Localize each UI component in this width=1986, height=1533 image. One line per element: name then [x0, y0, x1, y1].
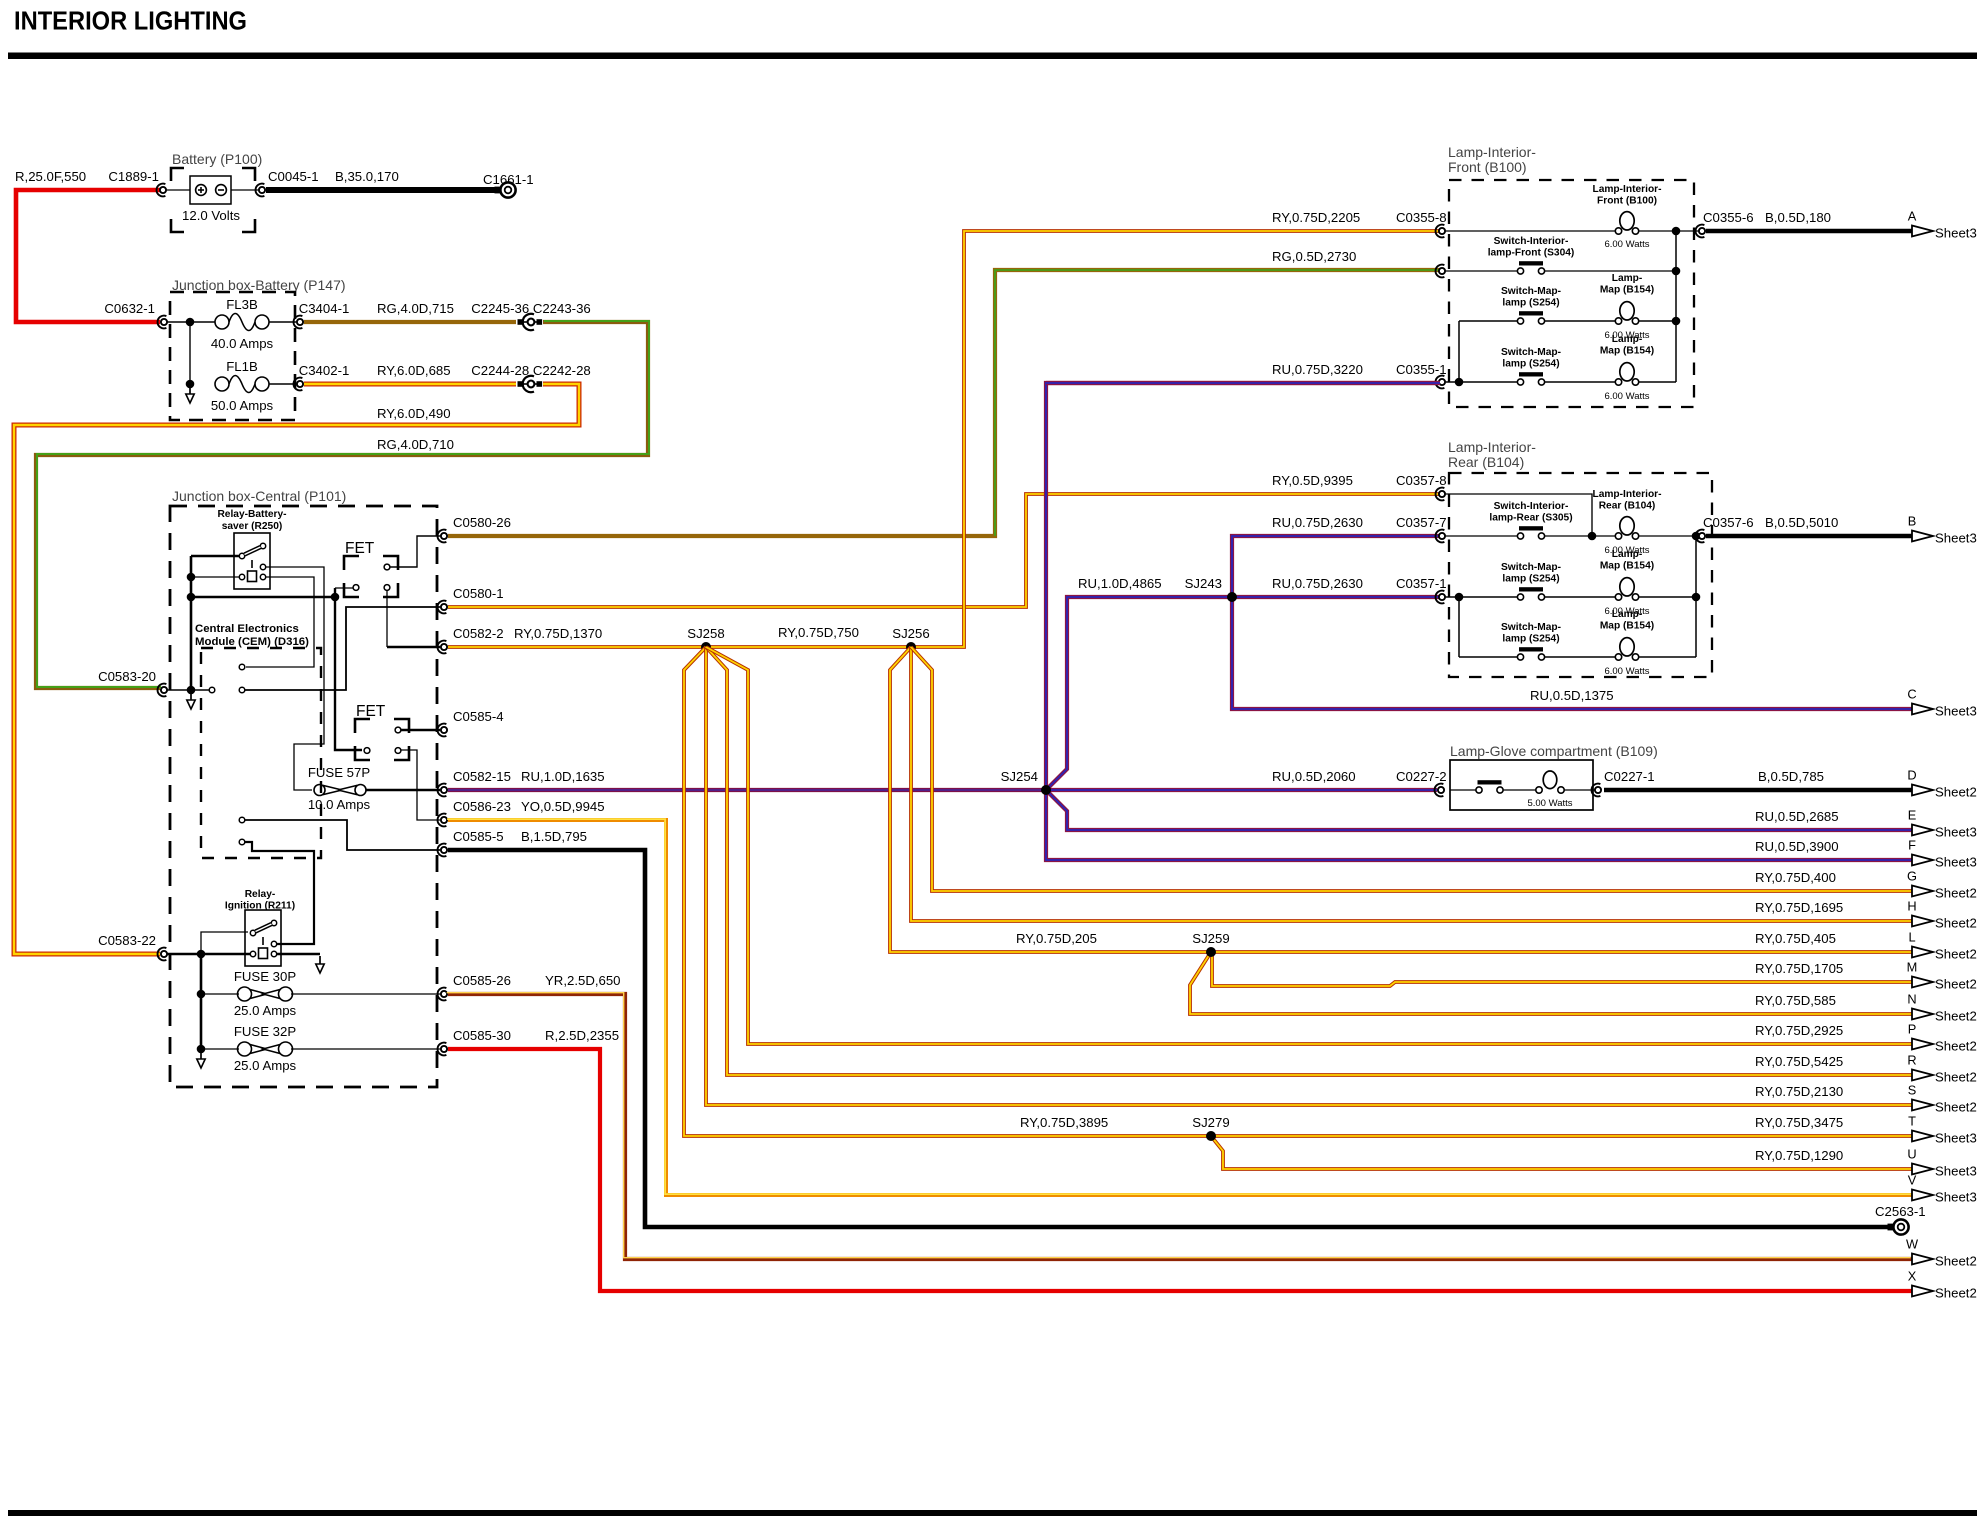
wire B104 row2c — [1639, 535, 1698, 537]
label 6.00 Watts B104 r2 — [1604, 545, 1649, 556]
wire CEM to C0580-1 — [245, 607, 440, 690]
svg-text:A: A — [1908, 209, 1917, 224]
label 12.0 Volts — [182, 208, 240, 223]
label S254b line2 — [1502, 359, 1559, 370]
junction C0583-20 — [187, 686, 196, 695]
label CEM line2 — [195, 636, 309, 648]
splice SJ258 — [701, 642, 711, 652]
svg-text:C: C — [1907, 687, 1916, 702]
splice SJ243 — [1227, 592, 1237, 602]
label Relay-Battery-saver line2 — [222, 521, 283, 532]
label YO,0.5D,9945 — [521, 799, 605, 814]
svg-text:Sheet2: Sheet2 — [1935, 947, 1977, 962]
sheet arrow V Sheet3 — [1908, 1173, 1977, 1205]
label B154a line1 — [1612, 273, 1643, 284]
lamp B154 rear b — [1615, 638, 1638, 661]
label C0586-23 — [453, 799, 511, 814]
label B,1.5D,795 — [521, 829, 587, 844]
wire B109 mid — [1503, 789, 1536, 791]
sheet arrow R Sheet2 — [1907, 1053, 1976, 1085]
label C0582-15 — [453, 769, 511, 784]
label R,25.0F,550 — [15, 169, 86, 184]
label SJ279 — [1192, 1115, 1229, 1130]
svg-text:V: V — [1908, 1173, 1917, 1188]
connector C0355-1 — [1436, 376, 1446, 389]
junction bus a — [187, 573, 196, 582]
svg-text:C0585-30: C0585-30 — [453, 1028, 511, 1043]
wire RY,0.75D,5425 run — [706, 647, 1912, 1075]
svg-text:Switch-Map-: Switch-Map- — [1501, 286, 1561, 297]
label Relay-Ignition line2 — [225, 901, 295, 912]
label B154b line2 — [1600, 346, 1654, 357]
label B154c line2 — [1600, 561, 1654, 572]
wire B104 row4b — [1544, 656, 1615, 658]
label S305 line1 — [1494, 501, 1569, 512]
svg-text:C0583-22: C0583-22 — [98, 933, 156, 948]
switch S254 rear b — [1517, 647, 1544, 660]
svg-text:Front (B100): Front (B100) — [1448, 159, 1527, 175]
svg-text:RY,0.75D,1290: RY,0.75D,1290 — [1755, 1148, 1843, 1163]
svg-text:RY,6.0D,490: RY,6.0D,490 — [377, 406, 451, 421]
label RU,0.5D,1375 — [1530, 688, 1614, 703]
label C0357-8 — [1396, 473, 1447, 488]
svg-text:Switch-Map-: Switch-Map- — [1501, 347, 1561, 358]
svg-text:lamp-Rear (S305): lamp-Rear (S305) — [1489, 513, 1572, 524]
svg-text:FUSE 57P: FUSE 57P — [308, 765, 371, 780]
label FL3B — [226, 297, 258, 312]
svg-text:lamp (S254): lamp (S254) — [1502, 634, 1559, 645]
label RY,0.75D,1370 — [514, 626, 602, 641]
wire B104 row2 — [1446, 535, 1517, 537]
label C3402-1 — [299, 363, 350, 378]
wire FL1B out — [269, 383, 296, 385]
wire RG tracer — [995, 270, 1440, 536]
pin CEM d — [239, 839, 245, 845]
lamp B104 — [1615, 517, 1638, 540]
wire RY,0.5D,9395 run — [448, 494, 1440, 607]
inline connector C2244-28 C2242-28 — [518, 376, 543, 392]
svg-text:Switch-Interior-: Switch-Interior- — [1494, 236, 1569, 247]
splice SJ259 — [1206, 947, 1216, 957]
svg-text:L: L — [1908, 930, 1915, 945]
label C0355-6 — [1703, 210, 1754, 225]
label C0580-26 — [453, 515, 511, 530]
svg-text:Sheet2: Sheet2 — [1935, 977, 1977, 992]
svg-text:C0583-20: C0583-20 — [98, 669, 156, 684]
footer rule — [8, 1510, 1977, 1516]
wire RU,0.5D,2685 run — [1046, 790, 1912, 830]
sheet arrow A Sheet3 — [1908, 209, 1977, 241]
svg-text:P: P — [1908, 1022, 1917, 1037]
label YR,2.5D,650 — [545, 973, 621, 988]
svg-text:Central Electronics: Central Electronics — [195, 623, 299, 635]
svg-text:10.0 Amps: 10.0 Amps — [308, 797, 371, 812]
wire FET1 gate stub — [335, 587, 353, 589]
svg-text:RY,6.0D,685: RY,6.0D,685 — [377, 363, 451, 378]
svg-text:C0357-7: C0357-7 — [1396, 515, 1447, 530]
svg-text:Sheet2: Sheet2 — [1935, 1286, 1977, 1301]
wire B100 row4b — [1544, 381, 1615, 383]
switch B109 — [1476, 780, 1503, 793]
label RY,0.75D,205 — [1016, 931, 1097, 946]
wire RU,0.75D,2630 to C0357-7 — [1232, 536, 1440, 597]
label B154a line2 — [1600, 285, 1654, 296]
CEM D316 box — [201, 648, 321, 858]
label RU,1.0D,1635 — [521, 769, 605, 784]
label 40.0 Amps — [211, 336, 274, 351]
wire FET1 source drop — [386, 590, 388, 647]
label S304 line1 — [1494, 236, 1569, 247]
label RY,0.75D,2925 — [1755, 1023, 1843, 1038]
wire B100 row2 — [1446, 270, 1517, 272]
svg-text:C0582-2: C0582-2 — [453, 626, 504, 641]
label FUSE 57P — [308, 765, 371, 780]
label B104 lamp line2 — [1599, 501, 1656, 512]
label SJ254 — [1001, 769, 1038, 784]
svg-text:F: F — [1908, 838, 1916, 853]
svg-text:lamp (S254): lamp (S254) — [1502, 574, 1559, 585]
svg-text:Sheet3: Sheet3 — [1935, 825, 1977, 840]
svg-text:B,35.0,170: B,35.0,170 — [335, 169, 399, 184]
svg-text:Map (B154): Map (B154) — [1600, 621, 1654, 632]
label 25.0 Amps a — [234, 1003, 297, 1018]
connector C0585-30 — [438, 1043, 448, 1056]
label SJ256 — [892, 626, 929, 641]
wire B104 row3 — [1446, 596, 1517, 598]
svg-text:Map (B154): Map (B154) — [1600, 285, 1654, 296]
page title — [14, 8, 247, 36]
svg-text:T: T — [1908, 1114, 1916, 1129]
connector C0632-1 — [158, 316, 168, 329]
pin CEM top — [239, 664, 245, 670]
label C0357-7 — [1396, 515, 1447, 530]
sheet arrow X Sheet2 — [1908, 1269, 1977, 1301]
wire RU,0.5D,1375 run — [1232, 597, 1912, 709]
svg-text:C2563-1: C2563-1 — [1875, 1204, 1926, 1219]
svg-text:saver (R250): saver (R250) — [222, 521, 283, 532]
svg-text:C3402-1: C3402-1 — [299, 363, 350, 378]
svg-text:RY,0.75D,585: RY,0.75D,585 — [1755, 993, 1836, 1008]
wire YR,2.5D,650 run — [447, 993, 1912, 1259]
wire RU,0.5D,2060 run — [1049, 788, 1437, 792]
svg-text:Sheet3: Sheet3 — [1935, 1190, 1977, 1205]
wire RY,0.75D,3895 run — [684, 647, 1912, 1136]
ground CEM — [187, 692, 195, 709]
sheet arrow M Sheet2 — [1907, 960, 1977, 992]
lamp B109 — [1536, 771, 1564, 793]
svg-text:R,2.5D,2355: R,2.5D,2355 — [545, 1028, 619, 1043]
lamp B154 rear a — [1615, 578, 1638, 601]
wire B100 row3c — [1639, 320, 1676, 322]
wire RY,0.75D,1695 run — [911, 647, 1912, 921]
connector C0582-2 — [438, 641, 448, 654]
label C0582-2 — [453, 626, 504, 641]
connector C0355-7 — [1436, 265, 1446, 278]
lamp module B104 box — [1449, 473, 1712, 677]
junction box P101 — [170, 506, 437, 1087]
wire fuse32 in — [201, 1048, 239, 1050]
svg-text:N: N — [1907, 992, 1916, 1007]
label B104 title1 — [1448, 439, 1536, 455]
wire B100 row1b — [1639, 230, 1698, 232]
wire RU,1.0D,1635 run — [448, 788, 1043, 792]
svg-text:YR,2.5D,650: YR,2.5D,650 — [545, 973, 621, 988]
svg-text:6.00 Watts: 6.00 Watts — [1604, 239, 1649, 250]
label RY,0.75D,3475 — [1755, 1115, 1843, 1130]
label Relay-Battery-saver line1 — [217, 509, 286, 520]
svg-text:Switch-Interior-: Switch-Interior- — [1494, 501, 1569, 512]
svg-text:Sheet2: Sheet2 — [1935, 1039, 1977, 1054]
wire R,25.0F,550 battery feed — [16, 190, 163, 322]
wire to C0582-2 — [387, 646, 440, 649]
svg-text:RY,0.75D,750: RY,0.75D,750 — [778, 625, 859, 640]
wire fuse57 out — [366, 789, 440, 792]
wire B,0.5D,5010 run — [1706, 534, 1912, 539]
svg-text:5.00 Watts: 5.00 Watts — [1527, 798, 1572, 809]
wire RY,0.75D,205 run — [890, 647, 1912, 952]
label Relay-Ignition line1 — [245, 889, 276, 900]
switch S305 — [1517, 526, 1544, 539]
svg-text:Switch-Map-: Switch-Map- — [1501, 562, 1561, 573]
wire RY,0.75D,1370 run — [448, 231, 1440, 647]
ring terminal C1661-1 — [483, 172, 534, 198]
connector C0357-6 — [1696, 530, 1706, 543]
label S254a line2 — [1502, 298, 1559, 309]
svg-text:Lamp-Interior-: Lamp-Interior- — [1448, 144, 1536, 160]
label C0227-2 — [1396, 769, 1447, 784]
label S254c line1 — [1501, 562, 1561, 573]
label RY,0.75D,585 — [1755, 993, 1836, 1008]
label 5.00 Watts — [1527, 798, 1572, 809]
connector C0357-7 — [1436, 530, 1446, 543]
wire YO,0.5D,9945 run — [447, 819, 1912, 1195]
junction fuse32 — [197, 1045, 206, 1054]
svg-text:FUSE 30P: FUSE 30P — [234, 969, 297, 984]
svg-text:Sheet2: Sheet2 — [1935, 886, 1977, 901]
svg-text:Sheet2: Sheet2 — [1935, 1100, 1977, 1115]
label C0045-1 — [268, 169, 319, 184]
label RY,0.75D,400 — [1755, 870, 1836, 885]
pin CEM c — [239, 817, 245, 823]
svg-text:Junction box-Battery (P147): Junction box-Battery (P147) — [172, 277, 346, 293]
label C0585-5 — [453, 829, 504, 844]
svg-text:C0357-1: C0357-1 — [1396, 576, 1447, 591]
connector C0580-1 — [438, 601, 448, 614]
svg-text:Module (CEM) (D316): Module (CEM) (D316) — [195, 636, 309, 648]
battery outline box P100 — [171, 168, 255, 232]
label SJ259 — [1192, 931, 1229, 946]
svg-text:R: R — [1907, 1053, 1916, 1068]
svg-text:C0355-6: C0355-6 — [1703, 210, 1754, 225]
fuse 30P — [238, 987, 293, 1001]
switch S254 front b — [1517, 372, 1544, 385]
FET 2 — [355, 703, 409, 760]
svg-text:C0357-8: C0357-8 — [1396, 473, 1447, 488]
svg-text:SJ258: SJ258 — [687, 626, 724, 641]
wire RU,1.0D,4865 run — [1046, 597, 1232, 790]
svg-text:RU,0.75D,2630: RU,0.75D,2630 — [1272, 515, 1363, 530]
svg-text:Rear (B104): Rear (B104) — [1599, 501, 1656, 512]
wire fuse30 out — [291, 993, 440, 995]
label C0357-6 — [1703, 515, 1754, 530]
svg-text:lamp (S254): lamp (S254) — [1502, 298, 1559, 309]
label RY,0.75D,3895 — [1020, 1115, 1108, 1130]
label RU,1.0D,4865 — [1078, 576, 1162, 591]
wire RY,6.0D,685 — [304, 382, 516, 387]
svg-text:RU,0.5D,3900: RU,0.5D,3900 — [1755, 839, 1839, 854]
wire B,0.5D,180 run — [1706, 229, 1912, 234]
battery P100 — [190, 176, 231, 204]
junction B100 r3 — [1672, 317, 1681, 326]
label 6.00 Watts B104 r4 — [1604, 666, 1649, 677]
svg-text:Sheet2: Sheet2 — [1935, 1070, 1977, 1085]
switch S304 — [1517, 261, 1544, 274]
svg-text:Sheet3: Sheet3 — [1935, 531, 1977, 546]
svg-text:RU,1.0D,4865: RU,1.0D,4865 — [1078, 576, 1162, 591]
lamp module B109 box — [1450, 760, 1593, 810]
sheet arrow B Sheet3 — [1908, 514, 1977, 546]
label R,2.5D,2355 — [545, 1028, 619, 1043]
label 10.0 Amps — [308, 797, 371, 812]
svg-text:C0045-1: C0045-1 — [268, 169, 319, 184]
svg-text:FET: FET — [356, 703, 386, 720]
svg-text:RY,0.75D,205: RY,0.75D,205 — [1016, 931, 1097, 946]
svg-text:6.00 Watts: 6.00 Watts — [1604, 391, 1649, 402]
connector C0586-23 — [438, 814, 448, 827]
connector C0045-1 — [256, 184, 266, 197]
wire P147 bus — [189, 322, 191, 384]
label RY,0.75D,5425 — [1755, 1054, 1843, 1069]
label RY,6.0D,685 — [377, 363, 451, 378]
svg-text:FL3B: FL3B — [226, 297, 258, 312]
svg-text:RY,0.75D,2205: RY,0.75D,2205 — [1272, 210, 1360, 225]
svg-text:S: S — [1908, 1083, 1917, 1098]
svg-text:RY,0.75D,2130: RY,0.75D,2130 — [1755, 1084, 1843, 1099]
svg-text:X: X — [1908, 1269, 1917, 1284]
wire battery internal right — [231, 189, 258, 191]
label B,35.0,170 — [335, 169, 399, 184]
svg-text:RU,0.75D,3220: RU,0.75D,3220 — [1272, 362, 1363, 377]
wire B,0.5D,785 run — [1604, 788, 1912, 793]
label RU,0.75D,2630 a — [1272, 515, 1363, 530]
connector C0585-5 — [438, 844, 448, 857]
wire R,2.5D,2355 run — [448, 1049, 1912, 1291]
wire B100 row4 — [1446, 381, 1517, 383]
svg-text:SJ259: SJ259 — [1192, 931, 1229, 946]
label B109 title — [1450, 743, 1658, 759]
label RG,4.0D,710 — [377, 437, 454, 452]
wire RY,0.75D,2130 run — [706, 647, 1912, 1105]
label 6.00 Watts row3 — [1604, 330, 1649, 341]
label S254d line1 — [1501, 622, 1561, 633]
label B,0.5D,5010 — [1765, 515, 1838, 530]
svg-text:SJ243: SJ243 — [1185, 576, 1222, 591]
svg-text:C0580-1: C0580-1 — [453, 586, 504, 601]
wire B100 row3 drop — [1458, 321, 1460, 382]
wire bus to FET gates — [191, 596, 335, 599]
svg-text:B,0.5D,5010: B,0.5D,5010 — [1765, 515, 1838, 530]
wire P101 bus — [190, 556, 193, 690]
label C2244-28 C2242-28 — [471, 363, 591, 378]
wire bus to relay switch — [191, 555, 239, 558]
label Junction box-Battery (P147) — [172, 277, 346, 293]
sheet arrow W Sheet2 — [1906, 1237, 1977, 1269]
svg-text:Sheet3: Sheet3 — [1935, 855, 1977, 870]
svg-text:RY,0.75D,400: RY,0.75D,400 — [1755, 870, 1836, 885]
wire B104 bus — [1695, 536, 1697, 657]
sheet arrow L Sheet2 — [1908, 930, 1976, 962]
sheet arrow F Sheet3 — [1908, 838, 1977, 870]
connector C3404-1 — [294, 316, 304, 329]
switch S254 rear a — [1517, 587, 1544, 600]
sheet arrow C Sheet3 — [1907, 687, 1976, 719]
junction box P147 — [170, 292, 295, 420]
label RU,0.5D,2685 — [1755, 809, 1839, 824]
wire relay no to fuse — [266, 567, 324, 790]
junction B104 r1 — [1588, 532, 1597, 541]
label Lamp-Interior-Front line2 — [1597, 196, 1657, 207]
connector C0582-15 — [438, 784, 448, 797]
svg-text:C0586-23: C0586-23 — [453, 799, 511, 814]
svg-text:Battery (P100): Battery (P100) — [172, 151, 262, 167]
svg-text:Sheet2: Sheet2 — [1935, 1254, 1977, 1269]
label S254b line1 — [1501, 347, 1561, 358]
svg-text:RY,0.75D,2925: RY,0.75D,2925 — [1755, 1023, 1843, 1038]
svg-text:SJ256: SJ256 — [892, 626, 929, 641]
wire fet gate drop — [335, 588, 362, 750]
label 25.0 Amps b — [234, 1058, 297, 1073]
svg-text:Lamp-Interior-: Lamp-Interior- — [1592, 184, 1661, 195]
svg-text:G: G — [1907, 869, 1917, 884]
label B104 title2 — [1448, 454, 1524, 470]
wire C0583-22 in — [167, 953, 250, 956]
sheet arrow G Sheet2 — [1907, 869, 1977, 901]
wire FL3B out — [269, 321, 296, 323]
label S254c line2 — [1502, 574, 1559, 585]
label CEM line1 — [195, 623, 299, 635]
fusible link FL3B — [215, 314, 269, 331]
label RY,6.0D,490 — [377, 406, 451, 421]
label C1889-1 — [108, 169, 159, 184]
svg-text:C0585-26: C0585-26 — [453, 973, 511, 988]
svg-text:C3404-1: C3404-1 — [299, 301, 350, 316]
lamp B154 front b — [1615, 363, 1638, 386]
ground P147 — [186, 386, 194, 403]
label B154b line1 — [1612, 334, 1643, 345]
svg-text:W: W — [1906, 1237, 1919, 1252]
label B,0.5D,785 — [1758, 769, 1824, 784]
label RY,0.75D,2130 — [1755, 1084, 1843, 1099]
wire B100 bus — [1675, 231, 1677, 382]
svg-text:Relay-Battery-: Relay-Battery- — [217, 509, 286, 520]
svg-text:lamp (S254): lamp (S254) — [1502, 359, 1559, 370]
junction B104 r3 left — [1455, 593, 1464, 602]
svg-text:RU,0.5D,2060: RU,0.5D,2060 — [1272, 769, 1356, 784]
label C0357-1 — [1396, 576, 1447, 591]
svg-text:RU,0.75D,2630: RU,0.75D,2630 — [1272, 576, 1363, 591]
wire FET2 drain to C0585-4 — [401, 729, 440, 732]
sheet arrow H Sheet2 — [1907, 899, 1976, 931]
sheet arrow U Sheet3 — [1907, 1147, 1976, 1179]
svg-text:Lamp-Interior-: Lamp-Interior- — [1592, 489, 1661, 500]
wire C0583-20 in — [167, 689, 209, 691]
wire RG,0.5D,2730 run — [448, 270, 1440, 536]
label RY,0.75D,1695 — [1755, 900, 1843, 915]
label RY,0.75D,750 — [778, 625, 859, 640]
svg-text:RG,4.0D,710: RG,4.0D,710 — [377, 437, 454, 452]
ground R211 — [316, 956, 324, 973]
connector C0227-1 — [1592, 784, 1602, 797]
